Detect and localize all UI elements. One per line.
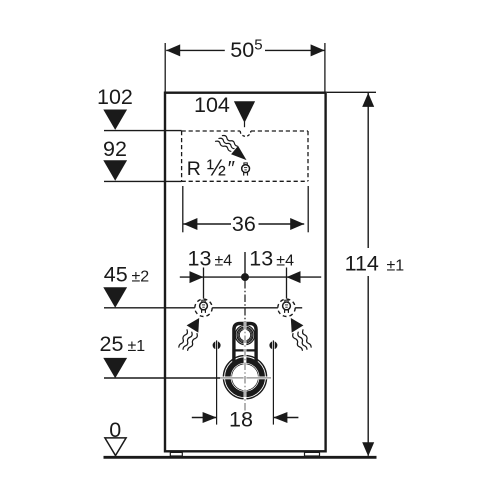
dim 45 triangle xyxy=(103,287,127,307)
tap icon in inlet box xyxy=(242,163,250,176)
dim 45 line xyxy=(104,307,302,309)
drain thick ring xyxy=(229,361,262,394)
dim 18 line right segment xyxy=(274,417,299,419)
dim 50-5 extension line left xyxy=(164,43,166,92)
tap icon right xyxy=(283,300,291,313)
water connection circle right xyxy=(278,299,295,316)
svg-text:104: 104 xyxy=(194,93,230,117)
left fixing extension line xyxy=(216,340,218,424)
left foot xyxy=(170,452,182,456)
right fixing dot xyxy=(269,341,277,349)
dim 13 arrow right pointing left xyxy=(287,271,301,283)
svg-text:18: 18 xyxy=(229,407,253,431)
dim 50-5 arrow left xyxy=(166,44,180,56)
dim 13 line xyxy=(180,276,321,278)
drain crosshair horizontal xyxy=(220,377,271,379)
flush pipe nut ring inner xyxy=(239,329,250,340)
datum 0 open triangle xyxy=(105,438,126,456)
dim 102 line xyxy=(104,130,182,132)
svg-text:25: 25 xyxy=(100,332,124,356)
dim 114 arrow up xyxy=(362,93,374,107)
svg-text:±4: ±4 xyxy=(276,252,294,269)
water connection circle left xyxy=(195,299,212,316)
dim 36 line left segment xyxy=(183,223,231,225)
right foot xyxy=(305,452,320,456)
dim 36 arrow right xyxy=(290,218,304,230)
dashed inlet zone box right edge xyxy=(307,131,309,181)
flush pipe nut ring middle xyxy=(238,328,252,342)
dim 25 triangle xyxy=(103,358,127,378)
center dot xyxy=(241,273,249,281)
dim 36 extension line left xyxy=(182,186,184,232)
dim 36 extension line right xyxy=(307,186,309,232)
dashed inlet zone box top edge xyxy=(182,130,241,132)
left fixing dot xyxy=(213,341,221,349)
dim 50-5 line left segment xyxy=(166,49,225,51)
dashed inlet notch arc xyxy=(240,131,251,136)
dim 36 line right segment xyxy=(259,223,305,225)
svg-text:±1: ±1 xyxy=(387,257,405,274)
svg-text:±4: ±4 xyxy=(215,252,233,269)
drain crosshair vertical casing xyxy=(244,322,247,419)
dashed inlet zone box bottom edge xyxy=(182,180,308,182)
dim 92 triangle xyxy=(103,160,127,180)
inlet flow arrow xyxy=(231,146,246,160)
drain ring texture xyxy=(231,363,259,391)
svg-text:½: ½ xyxy=(207,155,226,181)
cabinet outline xyxy=(165,93,326,452)
dim 114 extension line top xyxy=(327,91,376,93)
dim 50-5 line right segment xyxy=(265,49,325,51)
svg-text:102: 102 xyxy=(97,85,133,109)
right spray arrow and squiggle xyxy=(290,318,313,351)
flush bend stadium xyxy=(234,323,256,364)
dim 13 extension line right xyxy=(286,268,288,299)
center mark line between 13 labels xyxy=(244,252,246,277)
dim 13 extension line left xyxy=(203,268,205,299)
dim 114 line upper segment xyxy=(367,93,369,248)
dim 102 triangle xyxy=(103,110,127,130)
floor line xyxy=(104,456,377,459)
tap icon left xyxy=(200,300,208,313)
drain crosshair vertical xyxy=(244,322,246,419)
inlet water squiggle xyxy=(216,133,238,153)
svg-text:13: 13 xyxy=(249,246,273,270)
svg-text:±2: ±2 xyxy=(132,269,150,286)
dim 18 arrow right xyxy=(273,412,287,423)
right fixing extension line xyxy=(272,340,274,424)
center dash-dot line upper xyxy=(244,281,246,322)
dim 36 arrow left xyxy=(183,218,197,230)
svg-text:R: R xyxy=(187,158,201,180)
dim 18 line left segment xyxy=(192,417,216,419)
svg-text:″: ″ xyxy=(227,157,235,180)
left spray arrow and squiggle xyxy=(176,318,199,351)
flush pipe nut ring outer xyxy=(237,327,253,343)
dim 18 arrow left xyxy=(203,412,217,423)
svg-text:±1: ±1 xyxy=(128,338,146,355)
dim 114 line lower segment xyxy=(367,276,369,456)
svg-text:45: 45 xyxy=(104,263,128,287)
dim 104 triangle xyxy=(234,101,255,123)
dim 13 arrow left pointing right xyxy=(190,271,204,283)
dim 50-5 arrow right xyxy=(311,44,325,56)
drain crosshair horizontal casing xyxy=(220,376,271,379)
dim 50-5 extension line right xyxy=(324,43,326,92)
drain outer circle xyxy=(223,356,266,399)
dim 104 stem xyxy=(244,122,246,127)
flush bend crossbar xyxy=(233,349,257,351)
dim 92 line xyxy=(104,180,182,182)
flush pipe nut side profile xyxy=(235,325,254,344)
dashed inlet zone box left edge xyxy=(181,131,183,181)
svg-text:92: 92 xyxy=(103,137,127,161)
svg-text:36: 36 xyxy=(232,212,256,236)
svg-text:114: 114 xyxy=(345,251,379,275)
svg-text:13: 13 xyxy=(188,246,212,270)
dim 25 line xyxy=(104,377,220,379)
dim 114 arrow down xyxy=(362,442,374,456)
